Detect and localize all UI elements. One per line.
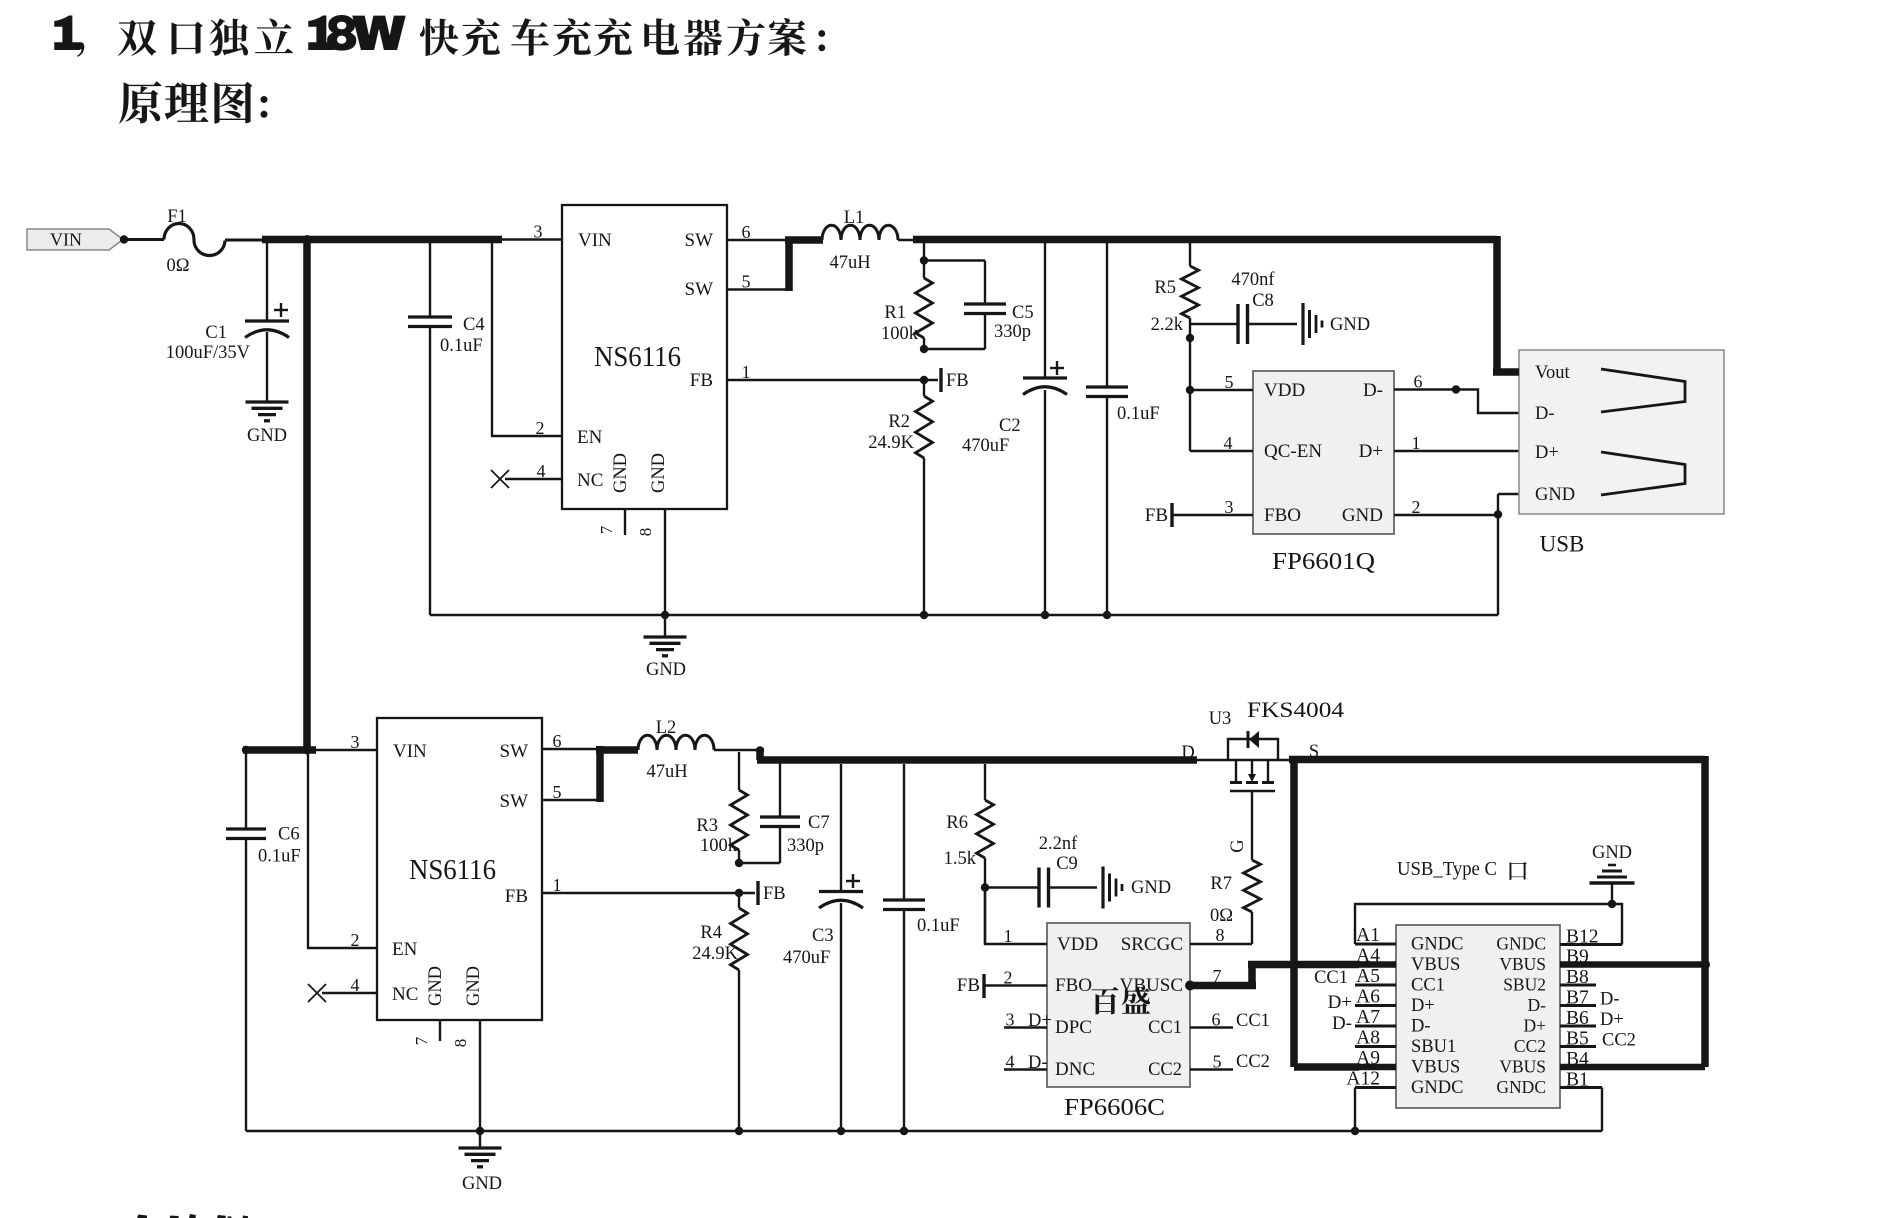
transistor U3 FKS4004 MOSFET bbox=[1181, 697, 1344, 791]
svg-text:D-: D- bbox=[1600, 990, 1620, 1010]
capacitor 0.1uF (bottom rail) bbox=[883, 764, 960, 1131]
svg-text:NS6116: NS6116 bbox=[594, 342, 681, 373]
svg-text:2.2k: 2.2k bbox=[1151, 315, 1184, 335]
wire A1/B12 ground net bbox=[1355, 904, 1622, 945]
svg-text:1: 1 bbox=[742, 362, 751, 382]
no-connect X at NC top bbox=[491, 461, 562, 488]
junction dots on top rail bbox=[661, 611, 669, 619]
svg-text:7: 7 bbox=[597, 525, 616, 534]
junction dot after L2 bbox=[756, 746, 764, 754]
svg-text:100k: 100k bbox=[700, 836, 738, 856]
svg-text:GND: GND bbox=[649, 453, 669, 493]
svg-text:2: 2 bbox=[1412, 497, 1421, 517]
wire FB net top bbox=[727, 362, 938, 382]
svg-text:3: 3 bbox=[1225, 497, 1234, 517]
wire FB net bottom bbox=[542, 875, 755, 895]
fuse F1 0 ohm bbox=[164, 207, 225, 276]
svg-text:B4: B4 bbox=[1566, 1049, 1589, 1070]
svg-text:R3: R3 bbox=[696, 816, 718, 836]
svg-text:B8: B8 bbox=[1566, 967, 1589, 988]
svg-text:FP6601Q: FP6601Q bbox=[1272, 549, 1375, 575]
svg-text:A5: A5 bbox=[1356, 966, 1380, 987]
svg-text:47uH: 47uH bbox=[646, 762, 687, 782]
svg-text:F1: F1 bbox=[167, 207, 187, 227]
svg-text:470uF: 470uF bbox=[783, 948, 830, 968]
wire VBUSC pin7 thick bbox=[1190, 965, 1359, 990]
wire bus to R1 bbox=[923, 243, 925, 260]
svg-text:C7: C7 bbox=[808, 813, 830, 833]
svg-text:0Ω: 0Ω bbox=[167, 256, 190, 276]
svg-text:0.1uF: 0.1uF bbox=[917, 916, 960, 936]
svg-text:VBUSC: VBUSC bbox=[1120, 975, 1183, 996]
svg-text:L1: L1 bbox=[844, 208, 865, 228]
svg-text:5: 5 bbox=[742, 272, 751, 292]
svg-text:DPC: DPC bbox=[1055, 1017, 1092, 1038]
no-connect X at NC bottom bbox=[308, 975, 377, 1002]
wire GND pin2 bbox=[1394, 497, 1498, 517]
svg-text:24.9K: 24.9K bbox=[692, 944, 738, 964]
wire D- pin6 to USB bbox=[1394, 372, 1520, 414]
svg-text:B9: B9 bbox=[1566, 947, 1589, 968]
wire VIN bus bottom thick bbox=[243, 746, 316, 754]
svg-text:GND: GND bbox=[247, 426, 287, 446]
resistor R7 0 ohm bbox=[1210, 860, 1261, 944]
svg-text:D: D bbox=[1181, 743, 1194, 763]
svg-text:GND: GND bbox=[611, 453, 631, 493]
svg-text:2: 2 bbox=[351, 930, 360, 950]
wire SRCGC pin8 to R7 bbox=[1190, 925, 1252, 945]
svg-text:VIN: VIN bbox=[50, 230, 82, 250]
svg-text:EN: EN bbox=[577, 427, 603, 448]
junction dot FB bbox=[920, 376, 928, 384]
svg-text:SW: SW bbox=[685, 279, 714, 300]
svg-text:CC1: CC1 bbox=[1411, 976, 1445, 996]
wire B1 to bottom rail bbox=[1601, 1088, 1603, 1132]
svg-text:6: 6 bbox=[1212, 1010, 1221, 1030]
USB Type-C connector box bbox=[1396, 925, 1560, 1108]
svg-text:D+: D+ bbox=[1535, 443, 1559, 463]
svg-text:C4: C4 bbox=[463, 315, 485, 335]
junction dot B9 bbox=[1700, 960, 1710, 970]
wire VIN bus thick bbox=[262, 236, 502, 244]
ground right of C8 bbox=[1303, 303, 1370, 345]
svg-text:A12: A12 bbox=[1346, 1069, 1380, 1090]
capacitor C7 330p bbox=[739, 763, 830, 863]
svg-text:A8: A8 bbox=[1356, 1028, 1380, 1049]
svg-text:B1: B1 bbox=[1566, 1070, 1589, 1091]
wire bus to pin3 top NS6116 bbox=[501, 222, 562, 242]
svg-text:3: 3 bbox=[1006, 1010, 1015, 1030]
wire 5V bus top thick bbox=[913, 236, 1497, 244]
pin 8 wire to bottom rail bbox=[451, 1020, 480, 1131]
FB flag FP6601Q pin3 bbox=[1145, 497, 1253, 527]
pin A6 stub bbox=[1355, 987, 1396, 1008]
wire SW pin5 top bbox=[727, 272, 789, 292]
junction dot VBUSC bbox=[1185, 981, 1195, 991]
IC U4 NS6116 (bottom) bbox=[377, 718, 542, 1020]
svg-text:A1: A1 bbox=[1356, 925, 1380, 946]
svg-text:47uH: 47uH bbox=[829, 253, 870, 273]
svg-text:A7: A7 bbox=[1356, 1007, 1380, 1028]
svg-text:D+: D+ bbox=[1523, 1016, 1546, 1036]
svg-text:C1: C1 bbox=[205, 323, 227, 343]
pin B5 stub bbox=[1560, 1029, 1596, 1050]
svg-text:D-: D- bbox=[1535, 404, 1555, 424]
ground rail top circuit bbox=[430, 614, 1498, 616]
wire VBUS right thick vertical bbox=[1701, 756, 1709, 1067]
junction dot bottom bus corner bbox=[303, 746, 312, 755]
capacitor C1 100uF/35V bbox=[166, 243, 289, 401]
pin A9 stub bbox=[1356, 1048, 1396, 1069]
inductor L1 47uH bbox=[822, 208, 898, 273]
resistor R4 24.9K bbox=[692, 893, 747, 1131]
svg-text:24.9K: 24.9K bbox=[868, 433, 914, 453]
capacitor C5 330p bbox=[924, 261, 1034, 350]
IC U5 FP6606C bbox=[1047, 923, 1190, 1121]
wire A12 to bottom rail bbox=[1354, 1088, 1356, 1132]
junction dot bus corner bbox=[303, 235, 312, 244]
svg-text:SBU1: SBU1 bbox=[1411, 1037, 1456, 1057]
title line 2 bbox=[119, 81, 267, 123]
svg-text:NC: NC bbox=[392, 984, 418, 1005]
svg-text:L2: L2 bbox=[656, 718, 677, 738]
pin A8 stub bbox=[1355, 1028, 1396, 1049]
svg-text:7: 7 bbox=[1213, 966, 1222, 986]
wire L2 to bus bbox=[714, 749, 764, 751]
svg-text:4: 4 bbox=[537, 461, 546, 481]
svg-text:FP6606C: FP6606C bbox=[1064, 1095, 1165, 1121]
junction dot Type-C gnd bbox=[1608, 900, 1616, 908]
wire SW thick corner bottom bbox=[596, 746, 638, 802]
svg-text:3: 3 bbox=[534, 222, 543, 242]
svg-text:5: 5 bbox=[553, 782, 562, 802]
svg-text:R4: R4 bbox=[700, 923, 722, 943]
junction dot R1 bottom bbox=[920, 345, 928, 353]
junction dot R1 top bbox=[920, 256, 928, 264]
wire CC1 pin6 bbox=[1190, 1010, 1270, 1032]
svg-text:SW: SW bbox=[500, 741, 529, 762]
svg-text:GND: GND bbox=[1330, 315, 1370, 335]
svg-text:CC2: CC2 bbox=[1236, 1052, 1270, 1072]
svg-text:B12: B12 bbox=[1566, 927, 1599, 948]
svg-text:VBUS: VBUS bbox=[1499, 954, 1546, 974]
svg-text:FB: FB bbox=[1145, 505, 1168, 526]
svg-text:8: 8 bbox=[1216, 925, 1225, 945]
svg-text:FB: FB bbox=[946, 371, 969, 391]
svg-text:2.2nf: 2.2nf bbox=[1039, 834, 1078, 854]
svg-text:GNDC: GNDC bbox=[1496, 934, 1546, 954]
pin B12 stub bbox=[1560, 927, 1622, 948]
svg-text:DNC: DNC bbox=[1055, 1059, 1095, 1080]
resistor R1 100k bbox=[881, 261, 933, 350]
svg-text:FB: FB bbox=[505, 886, 528, 907]
svg-text:330p: 330p bbox=[787, 836, 824, 856]
svg-text:R6: R6 bbox=[946, 813, 968, 833]
svg-text:C2: C2 bbox=[999, 416, 1021, 436]
svg-text:1.5k: 1.5k bbox=[944, 849, 977, 869]
svg-text:VDD: VDD bbox=[1057, 934, 1098, 955]
svg-text:4: 4 bbox=[351, 975, 360, 995]
pin B1 stub bbox=[1560, 1070, 1602, 1091]
junction dot at VIN tip bbox=[120, 235, 128, 243]
svg-text:VBUS: VBUS bbox=[1411, 955, 1460, 975]
svg-text:D+: D+ bbox=[1411, 996, 1435, 1016]
svg-text:A9: A9 bbox=[1356, 1048, 1380, 1069]
svg-text:C3: C3 bbox=[812, 926, 834, 946]
svg-text:R1: R1 bbox=[884, 303, 906, 323]
svg-text:1: 1 bbox=[1412, 433, 1421, 453]
svg-text:NC: NC bbox=[577, 470, 603, 491]
wire S bus thick bbox=[1289, 756, 1705, 764]
Type-C inner pin name labels bbox=[1411, 934, 1546, 1099]
junction dot GND pin2 bbox=[1494, 510, 1502, 518]
resistor R5 2.2k bbox=[1151, 243, 1199, 392]
junction dot D- bbox=[1452, 385, 1460, 393]
svg-text:470uF: 470uF bbox=[962, 436, 1009, 456]
wire DPC pin3 bbox=[1004, 1010, 1052, 1032]
capacitor C4 0.1uF bbox=[408, 243, 485, 615]
IC U1 NS6116 (top) bbox=[562, 205, 727, 509]
node VIN input flag bbox=[27, 229, 123, 250]
svg-text:R5: R5 bbox=[1154, 278, 1176, 298]
pin B7 stub bbox=[1560, 988, 1596, 1009]
wire D+ pin1 to USB bbox=[1394, 433, 1520, 453]
svg-text:GND: GND bbox=[1131, 878, 1171, 898]
pin B6 stub bbox=[1560, 1008, 1596, 1029]
svg-text:GND: GND bbox=[426, 966, 446, 1006]
svg-text:FKS4004: FKS4004 bbox=[1247, 697, 1344, 722]
svg-text:2: 2 bbox=[536, 418, 545, 438]
ground symbol top rail bbox=[644, 615, 687, 680]
svg-text:FBO: FBO bbox=[1055, 975, 1092, 996]
pin A1 stub bbox=[1355, 925, 1396, 946]
ground symbol above Type-C bbox=[1590, 843, 1635, 904]
svg-text:5: 5 bbox=[1225, 372, 1234, 392]
ground below C1 bbox=[246, 402, 289, 446]
svg-text:GND: GND bbox=[464, 966, 484, 1006]
pin 8 wire to ground rail bbox=[636, 509, 665, 615]
svg-text:SW: SW bbox=[685, 230, 714, 251]
svg-text:7: 7 bbox=[412, 1036, 431, 1045]
capacitor C6 0.1uF bbox=[226, 753, 301, 1131]
svg-text:D+: D+ bbox=[1600, 1010, 1624, 1030]
svg-text:B7: B7 bbox=[1566, 988, 1589, 1009]
svg-text:2: 2 bbox=[1004, 968, 1013, 988]
wire SW pin6 bottom bbox=[542, 731, 597, 751]
svg-text:0.1uF: 0.1uF bbox=[440, 336, 483, 356]
IC U2 FP6601Q bbox=[1253, 371, 1394, 575]
svg-text:D-: D- bbox=[1411, 1017, 1431, 1037]
wire VIN to fuse bbox=[124, 238, 164, 241]
svg-text:FB: FB bbox=[690, 370, 713, 391]
svg-text:VIN: VIN bbox=[393, 741, 427, 762]
wire CC2 pin5 bbox=[1190, 1052, 1270, 1073]
svg-text:D-: D- bbox=[1028, 1053, 1048, 1073]
svg-text:VIN: VIN bbox=[578, 230, 612, 251]
svg-text:GND: GND bbox=[1342, 505, 1383, 526]
svg-text:D-: D- bbox=[1363, 380, 1383, 401]
wire 5V bus bottom thick bbox=[757, 748, 1197, 760]
svg-text:R2: R2 bbox=[888, 412, 910, 432]
wire VBUS left thick vertical bbox=[1294, 756, 1359, 1067]
svg-text:EN: EN bbox=[392, 939, 418, 960]
svg-text:G: G bbox=[1228, 839, 1248, 852]
cut-off text fragments at bottom edge bbox=[137, 1214, 248, 1218]
svg-text:8: 8 bbox=[451, 1039, 470, 1048]
ground right of C9 bbox=[1103, 867, 1171, 909]
FB flag FP6606C pin2 bbox=[957, 968, 1047, 999]
wire gate to R7 bbox=[1228, 791, 1252, 860]
USB-A connector box bbox=[1519, 350, 1724, 514]
svg-text:FB: FB bbox=[763, 884, 786, 904]
resistor R3 100k bbox=[696, 752, 747, 863]
svg-text:100k: 100k bbox=[881, 324, 919, 344]
svg-text:GND: GND bbox=[462, 1174, 502, 1194]
capacitor C2 470uF bbox=[962, 243, 1067, 615]
capacitor 0.1uF (top rail) bbox=[1086, 243, 1160, 615]
svg-text:330p: 330p bbox=[994, 322, 1031, 342]
svg-text:R7: R7 bbox=[1210, 874, 1232, 894]
title line 1 bbox=[54, 15, 825, 57]
svg-text:GND: GND bbox=[1535, 485, 1575, 505]
svg-text:FBO: FBO bbox=[1264, 505, 1301, 526]
wire fuse to bus bbox=[225, 239, 266, 242]
inductor L2 47uH bbox=[638, 718, 714, 782]
wire bus to pin3 bottom NS6116 bbox=[315, 732, 377, 752]
wire EN bottom to bus bbox=[308, 753, 377, 950]
junction dot R6 bottom bbox=[981, 883, 989, 891]
svg-text:C8: C8 bbox=[1252, 291, 1274, 311]
svg-text:U3: U3 bbox=[1209, 709, 1232, 729]
label USB_Type C bbox=[1397, 858, 1527, 880]
svg-text:1: 1 bbox=[1004, 926, 1013, 946]
junction dot C6 branch bbox=[242, 746, 250, 754]
svg-text:6: 6 bbox=[1414, 372, 1423, 392]
FB flag top bbox=[941, 368, 969, 392]
svg-text:D-: D- bbox=[1528, 995, 1547, 1015]
svg-text:1: 1 bbox=[553, 875, 562, 895]
wire VDD pin5 bbox=[1190, 372, 1253, 392]
wire VDD pin1 FP6606C bbox=[985, 888, 1047, 947]
wire SW thick corner top bbox=[785, 237, 823, 292]
svg-text:8: 8 bbox=[636, 528, 655, 537]
FB flag bottom bbox=[758, 881, 786, 905]
svg-text:4: 4 bbox=[1224, 433, 1233, 453]
svg-text:C9: C9 bbox=[1056, 854, 1078, 874]
pin 7 stub top NS6116 bbox=[597, 509, 625, 535]
junction dot FB bottom bbox=[735, 889, 743, 897]
svg-text:FB: FB bbox=[957, 975, 980, 996]
svg-text:5: 5 bbox=[1213, 1052, 1222, 1072]
svg-text:SRCGC: SRCGC bbox=[1121, 934, 1183, 955]
pin 7 stub bottom NS6116 bbox=[412, 1020, 440, 1045]
svg-text:4: 4 bbox=[1006, 1052, 1015, 1072]
wire Vout thick bbox=[1493, 236, 1519, 372]
resistor R6 1.5k bbox=[944, 764, 994, 944]
svg-text:B6: B6 bbox=[1566, 1008, 1589, 1029]
pin A7 stub bbox=[1355, 1007, 1396, 1028]
capacitor C9 2.2nf bbox=[985, 834, 1097, 908]
svg-text:CC1: CC1 bbox=[1236, 1011, 1270, 1031]
wire DNC pin4 bbox=[1004, 1052, 1048, 1074]
pin A4 stub bbox=[1356, 946, 1396, 967]
svg-text:SBU2: SBU2 bbox=[1503, 975, 1546, 995]
svg-text:VBUS: VBUS bbox=[1499, 1057, 1546, 1077]
svg-text:470nf: 470nf bbox=[1231, 270, 1275, 290]
capacitor C3 470uF bbox=[783, 764, 863, 1131]
svg-text:SW: SW bbox=[500, 791, 529, 812]
svg-text:C5: C5 bbox=[1012, 303, 1034, 323]
svg-text:CC1: CC1 bbox=[1148, 1018, 1182, 1038]
svg-text:QC-EN: QC-EN bbox=[1264, 441, 1322, 462]
wire thick vertical bus bbox=[303, 236, 311, 753]
svg-text:CC2: CC2 bbox=[1148, 1060, 1182, 1080]
svg-text:GNDC: GNDC bbox=[1411, 935, 1463, 955]
svg-text:VDD: VDD bbox=[1264, 380, 1305, 401]
junction dot below R5 bbox=[1186, 334, 1194, 342]
svg-text:0Ω: 0Ω bbox=[1210, 906, 1233, 926]
svg-text:GND: GND bbox=[1592, 843, 1632, 863]
svg-text:D+: D+ bbox=[1328, 992, 1352, 1013]
svg-text:3: 3 bbox=[351, 732, 360, 752]
svg-text:GND: GND bbox=[646, 660, 686, 680]
svg-text:A6: A6 bbox=[1356, 987, 1380, 1008]
ground symbol bottom rail bbox=[459, 1131, 503, 1194]
pin B8 stub bbox=[1560, 967, 1596, 988]
svg-text:VBUS: VBUS bbox=[1411, 1058, 1460, 1078]
logo 百盛 inside FP6606C bbox=[1092, 987, 1151, 1015]
svg-text:0.1uF: 0.1uF bbox=[258, 847, 301, 867]
svg-text:D+: D+ bbox=[1028, 1011, 1052, 1031]
svg-text:NS6116: NS6116 bbox=[409, 855, 496, 886]
svg-text:100uF/35V: 100uF/35V bbox=[166, 343, 251, 363]
capacitor C8 470nf bbox=[1190, 270, 1297, 344]
wire QC-EN pin4 bbox=[1190, 390, 1253, 453]
wire EN top to bus bbox=[492, 243, 562, 438]
pin B9 stub bbox=[1560, 947, 1705, 968]
wire SW pin6 top bbox=[727, 222, 786, 242]
svg-text:CC2: CC2 bbox=[1602, 1031, 1636, 1051]
ground rail bottom circuit bbox=[246, 1130, 1602, 1132]
svg-text:C6: C6 bbox=[278, 825, 300, 845]
svg-text:CC1: CC1 bbox=[1314, 968, 1348, 988]
pin A12 stub bbox=[1346, 1069, 1396, 1090]
junction dots on bottom rail bbox=[476, 1127, 484, 1135]
svg-text:0.1uF: 0.1uF bbox=[1117, 404, 1160, 424]
svg-text:GNDC: GNDC bbox=[1496, 1077, 1546, 1097]
svg-text:D-: D- bbox=[1332, 1013, 1352, 1034]
junction dot VDD bbox=[1186, 386, 1194, 394]
wire L1 to bus bbox=[898, 239, 916, 241]
svg-text:CC2: CC2 bbox=[1514, 1036, 1546, 1056]
junction dot R3 bottom bbox=[735, 859, 743, 867]
svg-text:6: 6 bbox=[553, 731, 562, 751]
svg-text:B5: B5 bbox=[1566, 1029, 1589, 1050]
pin B4 stub bbox=[1560, 1049, 1705, 1070]
pin A5 stub bbox=[1355, 966, 1396, 987]
svg-text:D+: D+ bbox=[1359, 441, 1383, 462]
wire SW pin5 bottom bbox=[542, 782, 600, 802]
wire USB GND down to rail bbox=[1498, 494, 1520, 615]
resistor R2 24.9K bbox=[868, 380, 932, 615]
svg-text:USB_Type C: USB_Type C bbox=[1397, 858, 1497, 880]
svg-text:6: 6 bbox=[742, 222, 751, 242]
svg-text:A4: A4 bbox=[1356, 946, 1380, 967]
svg-text:GNDC: GNDC bbox=[1411, 1078, 1463, 1098]
svg-text:Vout: Vout bbox=[1535, 363, 1570, 383]
svg-text:USB: USB bbox=[1540, 532, 1585, 557]
